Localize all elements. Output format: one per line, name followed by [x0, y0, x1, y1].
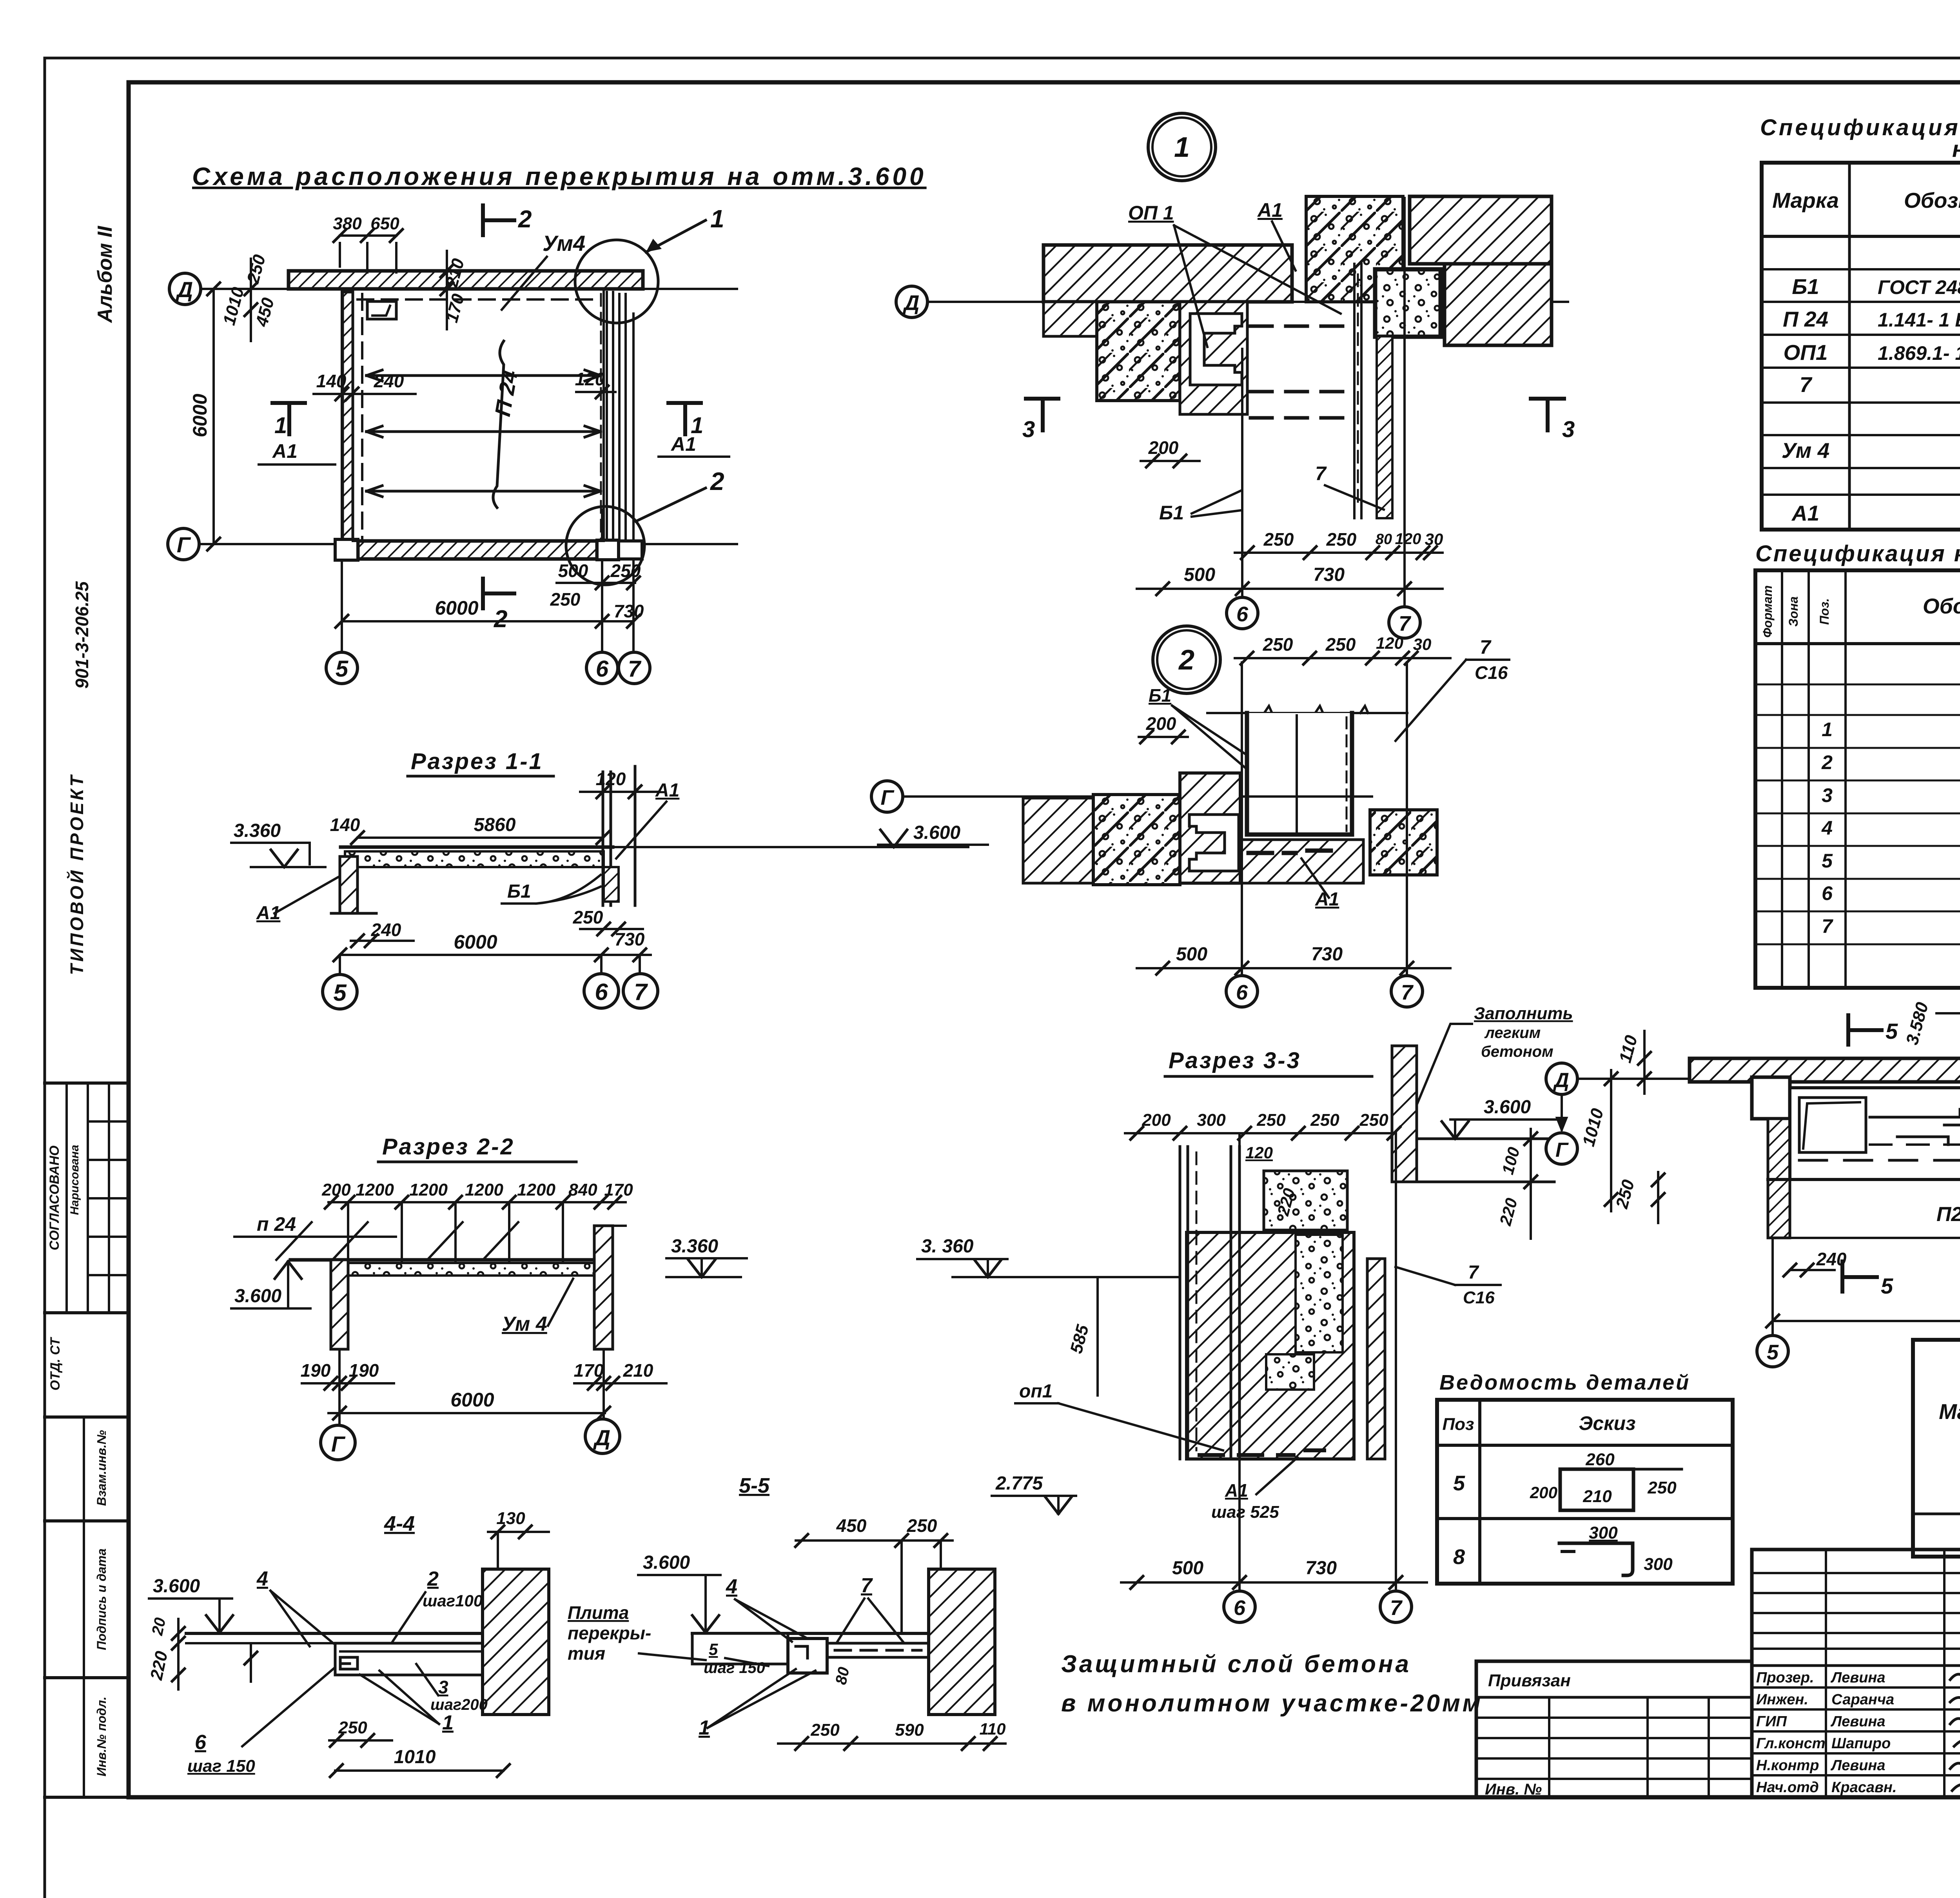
axis verticals + circles 6 7	[1241, 662, 1243, 976]
svg-text:Зона: Зона	[1786, 596, 1800, 626]
svg-text:4-4: 4-4	[384, 1512, 415, 1535]
svg-text:на отм. 3.600: на отм. 3.600	[1952, 136, 1960, 162]
svg-text:2: 2	[1178, 644, 1194, 676]
top dim chain 200 300 250 250 250	[1125, 1132, 1396, 1134]
dim 500 730	[1137, 588, 1443, 590]
detail leader 2	[636, 488, 706, 521]
top dim row	[328, 1201, 626, 1203]
svg-text:190: 190	[349, 1360, 379, 1381]
svg-text:250: 250	[1359, 1110, 1388, 1130]
channel C16 (opening right)	[1190, 314, 1242, 385]
svg-text:Левина: Левина	[1830, 1757, 1886, 1774]
svg-text:Взам.инв.№: Взам.инв.№	[94, 1430, 109, 1506]
sidebar lower table	[83, 1417, 85, 1797]
svg-text:170: 170	[604, 1180, 633, 1199]
top weld line with marks	[1207, 712, 1407, 714]
svg-text:5: 5	[336, 656, 348, 682]
svg-text:250: 250	[1325, 634, 1356, 655]
svg-text:Г: Г	[177, 532, 191, 557]
svg-text:Схема расположения перекрытия: Схема расположения перекрытия на отм.3.6…	[192, 162, 927, 191]
svg-text:210: 210	[1583, 1487, 1612, 1506]
svg-text:300: 300	[1589, 1523, 1618, 1542]
svg-text:ГИП: ГИП	[1756, 1713, 1787, 1730]
svg-text:Нач.отд: Нач.отд	[1756, 1779, 1819, 1796]
svg-text:П24: П24	[1936, 1203, 1960, 1226]
dim chain 250 250 80 120 30	[1235, 552, 1443, 554]
svg-text:6: 6	[1236, 602, 1249, 626]
left wall hatched	[340, 856, 358, 913]
svg-text:2.775: 2.775	[995, 1473, 1043, 1494]
svg-text:840: 840	[568, 1180, 597, 1199]
svg-text:1: 1	[1174, 132, 1190, 163]
dims 250 / 1010	[329, 1739, 392, 1742]
bottom dims 190 190 / 170 210	[302, 1382, 394, 1384]
section mark 3 right	[1531, 397, 1564, 401]
svg-text:4: 4	[256, 1568, 268, 1590]
U beam section	[1247, 713, 1352, 835]
svg-text:1: 1	[1822, 719, 1833, 740]
svg-text:3.600: 3.600	[643, 1552, 690, 1573]
svg-text:590: 590	[895, 1720, 924, 1740]
svg-text:шаг200: шаг200	[430, 1696, 488, 1713]
svg-text:6: 6	[1822, 882, 1833, 904]
svg-text:6: 6	[595, 979, 608, 1005]
svg-text:6: 6	[1234, 1596, 1246, 1620]
подписи (squiggles)	[1950, 1670, 1960, 1680]
table 1 frame	[1762, 163, 1960, 530]
svg-text:250: 250	[610, 561, 641, 581]
svg-text:3: 3	[1822, 784, 1833, 806]
bottom dim 500 730	[1121, 1581, 1427, 1584]
beam part	[335, 1643, 503, 1675]
svg-text:Марка эле-: Марка эле-	[1939, 1399, 1960, 1424]
svg-text:8: 8	[1453, 1545, 1465, 1569]
bottom wall end blocks	[335, 539, 358, 560]
wall under channel	[1180, 302, 1247, 414]
svg-text:ОТД. СТ: ОТД. СТ	[48, 1336, 63, 1390]
svg-text:П 24: П 24	[1783, 307, 1828, 331]
svg-text:250: 250	[907, 1515, 937, 1536]
axis circle 7	[619, 652, 650, 684]
svg-text:7: 7	[1390, 1596, 1403, 1620]
svg-text:А1: А1	[655, 780, 679, 801]
axis verticals + circles 6 7	[1238, 1133, 1241, 1591]
svg-text:Спецификация к монолитному: Спецификация к монолитному участку Ум 4	[1755, 541, 1960, 566]
small concrete insert	[1375, 269, 1441, 337]
svg-text:3.360: 3.360	[671, 1236, 718, 1257]
dim 240	[1790, 1269, 1835, 1271]
svg-text:5: 5	[333, 980, 347, 1006]
svg-text:3. 360: 3. 360	[921, 1236, 974, 1257]
detail 1 circle	[1148, 113, 1216, 181]
svg-text:Нарисована: Нарисована	[68, 1145, 81, 1215]
svg-text:в монолитном участке-20мм: в монолитном участке-20мм	[1061, 1690, 1483, 1717]
bearing pad OP1 concrete	[1097, 302, 1180, 401]
slab dashed edge lines	[358, 298, 601, 301]
svg-text:Инв. №: Инв. №	[1485, 1781, 1542, 1798]
svg-text:А1: А1	[670, 433, 696, 455]
svg-text:Б1: Б1	[1149, 685, 1171, 706]
right slab lines	[1417, 1138, 1554, 1140]
svg-text:5: 5	[1886, 1019, 1898, 1043]
plate joint verticals	[347, 1202, 349, 1270]
big wall block hatched	[1187, 1232, 1354, 1459]
svg-text:3: 3	[1562, 417, 1575, 442]
svg-text:Марка: Марка	[1772, 188, 1839, 212]
svg-text:5-5: 5-5	[739, 1474, 770, 1497]
brick wall right top	[1410, 196, 1552, 264]
axis circles 5 6 7	[339, 955, 341, 974]
svg-text:240: 240	[371, 920, 401, 940]
svg-text:Н.контр: Н.контр	[1756, 1757, 1819, 1774]
svg-text:3.600: 3.600	[153, 1576, 200, 1597]
svg-text:730: 730	[1305, 1558, 1337, 1579]
svg-text:30: 30	[1413, 635, 1432, 653]
svg-text:Привязан: Привязан	[1488, 1671, 1571, 1690]
dim 380/650	[340, 234, 396, 237]
dim 200	[1139, 736, 1188, 738]
section marks 5	[1846, 1015, 1850, 1045]
beam body	[1790, 1088, 1960, 1179]
svg-text:130: 130	[496, 1509, 525, 1528]
svg-text:7: 7	[1399, 612, 1412, 635]
svg-text:оп1: оп1	[1019, 1381, 1053, 1402]
svg-text:Д: Д	[903, 291, 920, 315]
svg-text:5860: 5860	[474, 815, 516, 835]
svg-text:6000: 6000	[450, 1389, 494, 1411]
svg-text:4: 4	[726, 1575, 737, 1598]
svg-text:120: 120	[1395, 530, 1421, 548]
svg-text:3.360: 3.360	[234, 820, 281, 841]
section mark 1 left	[272, 401, 305, 405]
detail circle 2	[566, 506, 644, 585]
svg-text:Г: Г	[331, 1432, 346, 1456]
svg-text:30: 30	[1425, 530, 1443, 548]
axis 6 line	[601, 510, 603, 651]
svg-text:тия: тия	[568, 1643, 605, 1664]
svg-text:Обозначение: Обозначение	[1904, 188, 1960, 212]
svg-text:1200: 1200	[465, 1180, 503, 1199]
svg-text:А1: А1	[1225, 1480, 1248, 1501]
svg-text:200: 200	[1530, 1483, 1557, 1502]
svg-text:7: 7	[1468, 1262, 1479, 1283]
left concrete pad	[1093, 795, 1180, 885]
left wall	[343, 292, 353, 541]
svg-text:170: 170	[574, 1360, 604, 1381]
axis stubs + circles 5 6 7	[1771, 1238, 1774, 1335]
svg-text:Разрез 1-1: Разрез 1-1	[411, 749, 543, 774]
svg-text:Ведомость деталей: Ведомость деталей	[1439, 1371, 1690, 1394]
svg-text:Плита: Плита	[568, 1602, 629, 1623]
svg-text:210: 210	[623, 1360, 653, 1381]
svg-text:Ум 4: Ум 4	[1782, 438, 1829, 463]
svg-text:СОГЛАСОВАНО: СОГЛАСОВАНО	[47, 1145, 62, 1250]
bottom main dim 6000	[342, 620, 633, 622]
section mark 3 left	[1026, 397, 1058, 401]
left far wall hatched	[1023, 798, 1093, 883]
svg-text:3.600: 3.600	[913, 822, 960, 843]
svg-text:5: 5	[1453, 1472, 1465, 1495]
plate diagonal marks	[276, 1222, 312, 1260]
axis Д line	[201, 288, 737, 290]
svg-text:п 24: п 24	[257, 1213, 296, 1235]
right concrete pad	[1370, 810, 1437, 875]
section mark 2 bottom	[481, 579, 485, 608]
svg-text:20: 20	[149, 1616, 169, 1637]
slab interior outline	[353, 289, 604, 541]
axis circle Д	[169, 273, 201, 305]
svg-text:250: 250	[1256, 1110, 1286, 1130]
svg-text:Б1: Б1	[1792, 274, 1819, 299]
svg-text:7: 7	[628, 656, 642, 682]
beam Б1 vertical strip	[1353, 264, 1356, 518]
svg-text:Д: Д	[176, 277, 193, 302]
svg-text:1200: 1200	[517, 1180, 555, 1199]
svg-text:5: 5	[1767, 1341, 1779, 1364]
П24 plate mark line	[493, 341, 504, 508]
svg-text:Ум4: Ум4	[543, 231, 585, 256]
concrete column inside	[1296, 1235, 1343, 1352]
svg-text:200: 200	[1142, 1110, 1171, 1130]
svg-text:250: 250	[550, 589, 581, 610]
svg-text:А1: А1	[1791, 501, 1819, 525]
svg-text:500: 500	[1172, 1558, 1203, 1579]
svg-text:Заполнить: Заполнить	[1474, 1004, 1573, 1023]
axis 7 line	[632, 314, 635, 651]
axis stubs + circles Г Д	[338, 1349, 341, 1425]
svg-text:300: 300	[1197, 1110, 1226, 1130]
dim 120 right	[576, 391, 615, 393]
svg-text:Инжен.: Инжен.	[1756, 1691, 1808, 1708]
dashed lines in beam	[1799, 1159, 1960, 1162]
upper wall band	[1392, 1046, 1417, 1182]
axis Д circle and line	[896, 286, 927, 318]
svg-text:С16: С16	[1475, 662, 1508, 683]
left sidebar dividers	[45, 1081, 129, 1085]
svg-text:120: 120	[1245, 1143, 1273, 1162]
svg-text:7: 7	[1822, 915, 1833, 937]
small opening with beam end top-left	[367, 301, 396, 319]
svg-text:6: 6	[1236, 981, 1248, 1004]
svg-text:7: 7	[1480, 636, 1492, 658]
svg-text:250: 250	[1263, 529, 1294, 550]
svg-text:1200: 1200	[356, 1180, 394, 1199]
svg-text:Поз: Поз	[1443, 1415, 1474, 1434]
svg-text:730: 730	[615, 929, 645, 949]
svg-text:120: 120	[596, 769, 626, 789]
svg-text:Ум 4: Ум 4	[502, 1313, 547, 1335]
svg-text:240: 240	[374, 371, 404, 391]
svg-text:шаг 150: шаг 150	[704, 1659, 765, 1677]
svg-text:1: 1	[442, 1711, 454, 1734]
svg-text:240: 240	[1816, 1249, 1847, 1269]
slab lines	[186, 1632, 491, 1635]
svg-text:5: 5	[1881, 1274, 1893, 1298]
bottom beam hatched	[1240, 840, 1363, 883]
svg-text:300: 300	[1644, 1555, 1673, 1574]
right wall lower	[1367, 1259, 1385, 1459]
svg-text:2: 2	[710, 467, 724, 495]
svg-text:1.141- 1 Вып. 59: 1.141- 1 Вып. 59	[1878, 309, 1960, 331]
plate span arrows	[367, 370, 601, 381]
axis 5 line	[341, 290, 343, 651]
svg-text:901-3-206.25: 901-3-206.25	[72, 581, 92, 689]
svg-text:1: 1	[274, 413, 287, 438]
axis Д horizontal	[1578, 1078, 1756, 1080]
svg-text:80: 80	[832, 1666, 853, 1686]
slab	[692, 1632, 984, 1635]
svg-text:ГОСТ 24893.0-81: ГОСТ 24893.0-81	[1878, 276, 1960, 298]
slab top line extension to level mark	[613, 846, 968, 848]
svg-text:2: 2	[494, 606, 507, 633]
svg-text:Подпись и дата: Подпись и дата	[94, 1548, 109, 1650]
wall right hatched	[929, 1569, 995, 1715]
svg-text:380: 380	[333, 214, 362, 233]
dim 500 730	[1137, 967, 1450, 969]
svg-text:110: 110	[980, 1720, 1006, 1738]
svg-text:500: 500	[1184, 564, 1215, 585]
svg-text:ОП1: ОП1	[1784, 340, 1828, 365]
svg-text:140: 140	[316, 371, 347, 391]
beam bottom line	[1768, 1178, 1960, 1181]
svg-text:Гл.конст: Гл.конст	[1756, 1735, 1825, 1752]
svg-text:шаг 525: шаг 525	[1211, 1502, 1279, 1522]
svg-text:Разрез 3-3: Разрез 3-3	[1169, 1048, 1301, 1073]
svg-text:7: 7	[634, 979, 648, 1005]
rebar dashes	[1249, 851, 1272, 855]
section mark 1 right	[668, 401, 701, 405]
axis circle 5	[326, 652, 358, 684]
top slab hatched band	[1690, 1058, 1960, 1082]
svg-text:Д: Д	[593, 1425, 610, 1450]
svg-text:Защитный слой бетона: Защитный слой бетона	[1061, 1651, 1411, 1678]
axis Г line	[199, 543, 737, 545]
svg-text:Обозначение: Обозначение	[1923, 594, 1960, 618]
dim 6000 bottom	[1773, 1320, 1960, 1322]
svg-text:1.869.1- 1: 1.869.1- 1	[1878, 342, 1960, 364]
svg-text:250: 250	[810, 1720, 840, 1740]
svg-text:шаг 150: шаг 150	[187, 1756, 255, 1776]
svg-text:3.600: 3.600	[1484, 1097, 1531, 1118]
svg-text:6000: 6000	[189, 394, 211, 437]
svg-text:5: 5	[1822, 850, 1833, 872]
svg-text:6000: 6000	[435, 597, 478, 619]
svg-text:7: 7	[1401, 981, 1414, 1004]
svg-text:120: 120	[575, 369, 605, 389]
svg-text:Формат: Формат	[1760, 585, 1775, 638]
channel C16 (opening left)	[1189, 815, 1239, 871]
dim 140/240	[314, 393, 416, 395]
svg-text:Красавн.: Красавн.	[1831, 1779, 1896, 1796]
wall top-left hatched	[1044, 245, 1292, 302]
bottom dim 6000	[328, 1412, 605, 1414]
svg-text:легким: легким	[1484, 1024, 1541, 1042]
svg-text:120: 120	[1376, 634, 1403, 652]
rebar hooks middle	[1870, 1109, 1960, 1145]
svg-text:3.600: 3.600	[234, 1286, 281, 1306]
svg-text:6000: 6000	[454, 931, 497, 953]
inner rebar detail rect	[1799, 1098, 1866, 1152]
table 2 frame	[1755, 570, 1960, 988]
svg-text:бетоном: бетоном	[1481, 1043, 1553, 1060]
svg-text:Инв.№ подл.: Инв.№ подл.	[94, 1697, 109, 1776]
axis circle 6	[586, 652, 618, 684]
svg-text:730: 730	[1311, 944, 1343, 965]
detail leader 1	[646, 220, 706, 252]
svg-text:260: 260	[1585, 1450, 1615, 1469]
svg-text:250: 250	[573, 907, 603, 927]
svg-text:ОП 1: ОП 1	[1128, 202, 1174, 224]
svg-text:А1: А1	[1315, 889, 1339, 910]
beam lines over wall block	[1179, 1232, 1181, 1459]
bottom wall band hatched	[358, 541, 597, 559]
svg-text:Саранча: Саранча	[1831, 1691, 1894, 1708]
svg-text:730: 730	[614, 601, 644, 621]
bottom small dims	[557, 582, 635, 584]
svg-text:2: 2	[518, 206, 532, 233]
svg-text:5: 5	[709, 1640, 718, 1658]
svg-text:Альбом II: Альбом II	[94, 225, 116, 323]
svg-text:1010: 1010	[394, 1747, 436, 1767]
axis circle Г	[168, 528, 199, 560]
dim 5860 / 140	[358, 836, 603, 839]
svg-text:С16: С16	[1463, 1288, 1495, 1307]
svg-text:7: 7	[1315, 463, 1327, 484]
slab band with concrete fill	[341, 846, 613, 849]
svg-text:450: 450	[836, 1515, 867, 1536]
right wall	[594, 1226, 613, 1349]
svg-text:200: 200	[1146, 713, 1176, 734]
svg-text:500: 500	[558, 561, 588, 581]
axis Д and Г circles left	[1546, 1063, 1577, 1094]
svg-text:500: 500	[1176, 944, 1207, 965]
left wall	[331, 1260, 348, 1349]
svg-text:730: 730	[1313, 564, 1345, 585]
svg-text:250: 250	[1647, 1478, 1677, 1497]
svg-text:Г: Г	[1555, 1139, 1569, 1161]
column left	[1752, 1077, 1790, 1119]
sidebar approval table	[65, 1083, 68, 1313]
slab	[290, 1258, 597, 1262]
svg-text:4: 4	[1821, 817, 1833, 839]
svg-text:650: 650	[370, 214, 399, 233]
svg-text:Поз.: Поз.	[1817, 598, 1831, 625]
svg-text:3: 3	[1022, 417, 1035, 442]
svg-text:250: 250	[1326, 529, 1357, 550]
svg-text:6: 6	[596, 656, 609, 682]
concrete column right (OP)	[1306, 196, 1403, 302]
dim 120 top	[580, 791, 659, 793]
svg-text:Левина: Левина	[1830, 1669, 1886, 1686]
svg-text:140: 140	[330, 815, 360, 835]
svg-text:1200: 1200	[409, 1180, 448, 1199]
table frame	[1437, 1400, 1733, 1584]
sheet outer edge lines	[45, 57, 1960, 60]
axis Г circle and line	[871, 781, 903, 812]
svg-text:7: 7	[861, 1574, 873, 1597]
svg-text:Г: Г	[880, 786, 895, 809]
svg-text:Спецификация к схеме располо: Спецификация к схеме расположения перекр…	[1760, 115, 1960, 140]
svg-text:А1: А1	[272, 440, 298, 462]
rebar dashed in wall	[1200, 1453, 1294, 1457]
svg-text:Разрез 2-2: Разрез 2-2	[382, 1134, 515, 1159]
dims 250 590 110	[778, 1742, 1005, 1745]
dim 200	[1141, 460, 1200, 462]
right wall / beam lines	[602, 772, 604, 905]
detail 2 circle	[1153, 626, 1220, 693]
svg-text:3: 3	[438, 1677, 448, 1697]
svg-text:2: 2	[1821, 751, 1833, 773]
